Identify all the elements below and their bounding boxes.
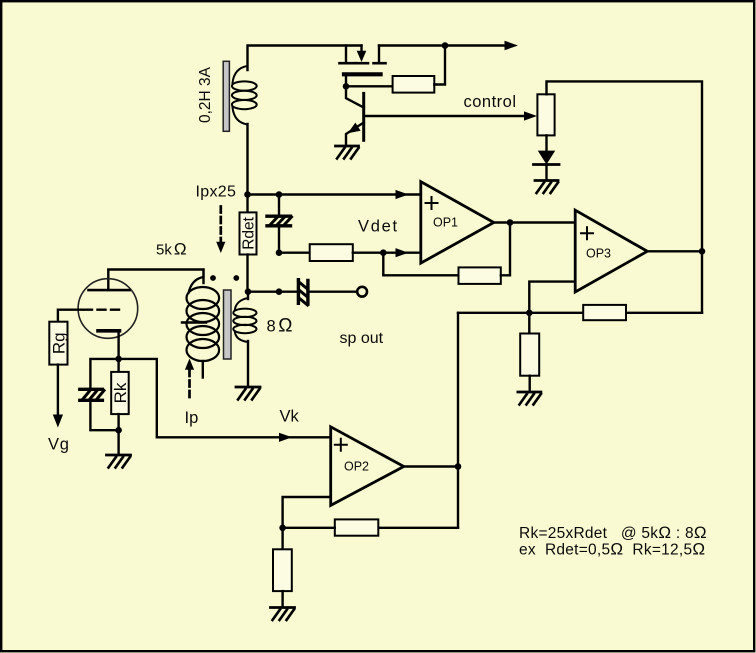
node dot OP2 minus bbox=[279, 525, 286, 532]
resistor R-gnd3 bbox=[528, 313, 530, 334]
svg-text:Rk: Rk bbox=[111, 382, 130, 403]
svg-text:Rg: Rg bbox=[50, 332, 69, 354]
capacitor C2 (hatched) bbox=[80, 389, 104, 400]
wire OP1 feedback bbox=[383, 253, 458, 276]
resistor R-fb1 bbox=[459, 267, 501, 284]
arrow into OP1 minus bbox=[396, 248, 409, 257]
wire gate to resistor bbox=[346, 85, 393, 87]
node dot OP3 out bbox=[699, 248, 706, 255]
op-amp U3 OP3 bbox=[575, 210, 647, 292]
wire inductor bottom to node bbox=[246, 124, 248, 195]
MOSFET Q1 bbox=[340, 46, 386, 87]
wire R-vdet to OP1 minus bbox=[353, 251, 421, 253]
node dot OP1 minus bbox=[380, 249, 387, 256]
ground under R-gnd3 bbox=[518, 392, 541, 405]
wire tube anode to transformer primary bbox=[108, 270, 203, 291]
wire grid to Rg bbox=[58, 310, 83, 322]
wire fb3 horizontal bbox=[458, 312, 702, 314]
resistor R-vdet bbox=[310, 244, 353, 261]
wire minus node to OP2 bbox=[283, 497, 331, 528]
svg-text:sp out: sp out bbox=[340, 330, 384, 347]
arrow into OP2 plus bbox=[279, 433, 292, 442]
wire sp line bbox=[248, 291, 297, 293]
svg-text:OP1: OP1 bbox=[433, 216, 458, 230]
wire cap to sp terminal bbox=[308, 291, 357, 293]
wire OP2 feedback bbox=[378, 527, 458, 529]
wire pot top to right rail, rail down bbox=[547, 81, 703, 312]
capacitor C3 (hatched, horizontal) bbox=[298, 280, 308, 305]
phasing dot left bbox=[210, 275, 216, 281]
transformer primary coil bbox=[187, 270, 220, 362]
svg-text:OP3: OP3 bbox=[586, 247, 611, 261]
node dot OP2 out bbox=[455, 463, 462, 470]
arrow Vg bbox=[53, 415, 63, 428]
svg-text:Vdet: Vdet bbox=[358, 217, 399, 235]
svg-text:control: control bbox=[464, 93, 517, 111]
resistor Rk bbox=[117, 359, 119, 372]
wire OP3 out to rail bbox=[647, 250, 702, 252]
arrow on top rail bbox=[505, 41, 519, 51]
resistor R-gnd2 bbox=[281, 528, 283, 550]
node dot OP1 output bbox=[507, 219, 514, 226]
svg-text:Vk: Vk bbox=[280, 408, 300, 426]
ground under Rk bbox=[107, 455, 131, 468]
potentiometer R-control bbox=[537, 94, 554, 135]
inductor L1 coil bbox=[232, 66, 257, 125]
ground under Q2 emitter bbox=[336, 146, 359, 159]
node dot Rk bottom bbox=[115, 427, 122, 434]
svg-text:OP2: OP2 bbox=[344, 460, 369, 474]
node dot OP3 fb bbox=[526, 310, 533, 317]
wire cathode down bbox=[117, 332, 119, 359]
resistor R-gate bbox=[393, 76, 435, 93]
wire node to OP1 plus input bbox=[248, 193, 421, 195]
node dot secondary top bbox=[245, 288, 252, 295]
node dot cathode bbox=[115, 356, 122, 363]
dashed arrow Ipx25 bbox=[216, 207, 225, 254]
inductor L1 0,2H 3A : core bar bbox=[223, 61, 229, 131]
transistor Q2 bbox=[346, 93, 364, 146]
transformer primary tap line bbox=[182, 321, 206, 323]
svg-text:0,2H 3A: 0,2H 3A bbox=[197, 66, 214, 123]
node dot Ipx25 bbox=[244, 191, 251, 198]
ground under secondary bbox=[236, 387, 260, 400]
transformer secondary coil bbox=[233, 298, 256, 342]
resistor Rg bbox=[49, 322, 67, 365]
wire Rk bottom to ground bbox=[117, 430, 119, 454]
dashed arrow Ip bbox=[185, 359, 194, 398]
wire pot bottom to diode bbox=[545, 135, 547, 151]
transformer core bar bbox=[224, 290, 232, 359]
wire OP2 out bbox=[404, 465, 458, 467]
wire control (base to pot arrow) bbox=[364, 115, 526, 117]
phasing dot right bbox=[233, 275, 239, 281]
tube V1 envelope bbox=[78, 279, 138, 339]
wire cap to bottom node bbox=[90, 402, 118, 431]
wire R-fb1 to OP1 output bbox=[501, 223, 510, 276]
wire Rdet bottom to sp node bbox=[246, 255, 248, 292]
tube grid (dashed) bbox=[84, 309, 122, 311]
arrow into OP1 plus bbox=[396, 190, 409, 199]
wire Rg to Vg arrow bbox=[57, 365, 59, 416]
resistor Rdet bbox=[246, 195, 248, 213]
ground under diode bbox=[535, 181, 558, 194]
node dot Vdet branch bbox=[276, 249, 283, 256]
diode D1 bbox=[534, 151, 560, 180]
wire cathode node left to cap bbox=[90, 359, 118, 388]
wire secondary top bbox=[247, 292, 249, 299]
svg-text:8Ω: 8Ω bbox=[267, 316, 293, 337]
wire to resistor R-vdet bbox=[279, 251, 310, 253]
wire OP3 minus input bbox=[529, 282, 575, 313]
node dot gate bbox=[343, 83, 350, 90]
resistor R-fb2 bbox=[335, 519, 379, 535]
svg-text:Ipx25: Ipx25 bbox=[196, 184, 237, 201]
transformer primary bottom stub bbox=[202, 361, 204, 378]
node dot on top rail bbox=[442, 42, 449, 49]
terminal sp out bbox=[357, 287, 367, 297]
wire top rail right (MOSFET drain side to arrow) bbox=[379, 44, 506, 46]
wire resistor to top rail bbox=[434, 46, 445, 85]
wire R-fb2 to minus node bbox=[283, 527, 335, 529]
wire top rail left (inductor top to MOSFET source side) bbox=[248, 46, 362, 71]
node dot cap branch top bbox=[276, 191, 283, 198]
wire OP1 out to OP3 bbox=[494, 221, 575, 223]
svg-text:Rdet: Rdet bbox=[241, 216, 258, 249]
transistor Q2 collector wire bbox=[346, 86, 364, 107]
wire secondary bottom to ground bbox=[247, 341, 249, 387]
wire Vk (cathode to OP2 plus) bbox=[119, 359, 331, 437]
arrow into control pot bbox=[524, 111, 537, 120]
svg-text:ex Rdet=0,5Ω Rk=12,5Ω: ex Rdet=0,5Ω Rk=12,5Ω bbox=[519, 539, 705, 558]
op-amp U2 OP2 bbox=[331, 427, 404, 506]
capacitor C1 (hatched) on x=279 bbox=[267, 195, 292, 253]
tube anode bbox=[89, 289, 130, 292]
svg-text:Vg: Vg bbox=[48, 436, 70, 454]
node dot sp line bbox=[276, 288, 283, 295]
op-amp U1 OP1 bbox=[421, 182, 494, 264]
svg-text:5kΩ: 5kΩ bbox=[156, 240, 187, 259]
ground under R-gnd2 bbox=[271, 608, 295, 621]
resistor R-fb3 bbox=[583, 305, 626, 320]
svg-text:Ip: Ip bbox=[185, 409, 199, 427]
tube cathode bbox=[98, 329, 120, 333]
wire OP2 out vertical bbox=[457, 313, 459, 528]
